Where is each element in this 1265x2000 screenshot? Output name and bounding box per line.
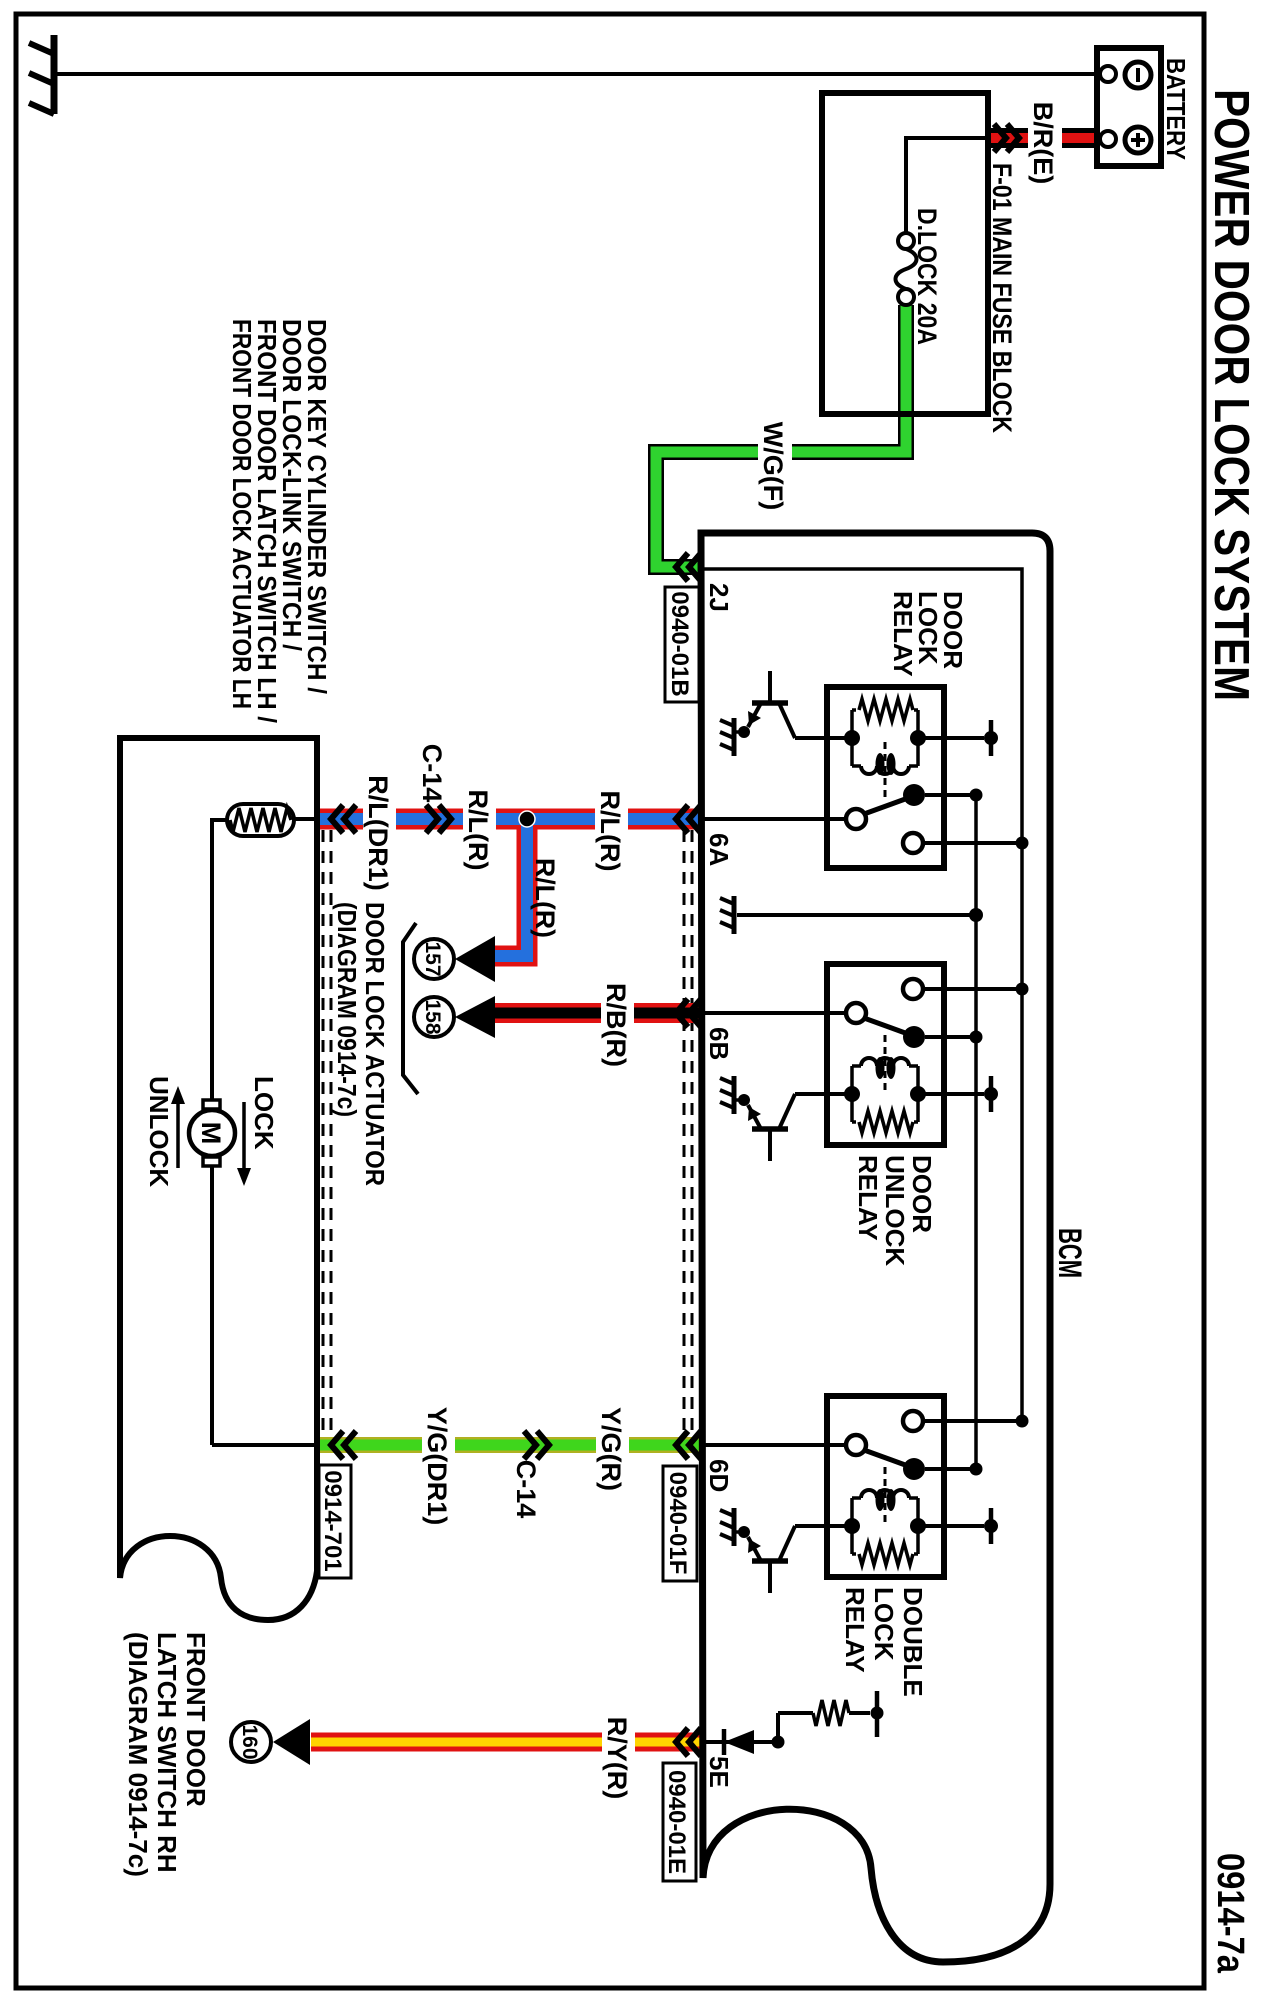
fuse block F-01 <box>822 93 988 414</box>
svg-text:R/L(R): R/L(R) <box>595 791 625 872</box>
arrow to 158 <box>455 996 495 1038</box>
ground door unlock relay transistor <box>720 1076 734 1114</box>
chevron 6A <box>676 805 701 833</box>
svg-text:R/L(R): R/L(R) <box>463 790 493 871</box>
battery negative terminal <box>1125 62 1151 88</box>
junction dot on R/L wire <box>519 811 535 827</box>
wire B/R(E) battery to fuse <box>988 128 1100 148</box>
lock arrow <box>242 1102 246 1168</box>
svg-text:6B: 6B <box>704 1027 734 1060</box>
wire fuse block internal <box>906 138 988 233</box>
double lock relay (mirrored) <box>703 1396 1029 1593</box>
svg-text:0940-01E: 0940-01E <box>663 1770 690 1874</box>
ground double lock relay transistor <box>720 1508 734 1546</box>
svg-text:LOCK: LOCK <box>249 1076 279 1150</box>
svg-text:POWER DOOR LOCK SYSTEM: POWER DOOR LOCK SYSTEM <box>1204 89 1258 701</box>
svg-text:R/L(R): R/L(R) <box>530 858 560 938</box>
wire motor to 6D pin <box>212 1166 317 1445</box>
wire R/L(R) BCM 6A to actuator, with branch to 157 <box>319 819 701 956</box>
arrow to 160 <box>273 1719 310 1765</box>
battery negative wire to ground <box>54 72 1100 76</box>
label Y/G(DR1) <box>422 1402 455 1530</box>
fuse D.LOCK 20A <box>898 233 914 249</box>
svg-text:Y/G(DR1): Y/G(DR1) <box>422 1407 452 1526</box>
chevron battery wire <box>994 124 1019 152</box>
svg-text:DOOR LOCK ACTUATOR: DOOR LOCK ACTUATOR <box>360 902 390 1186</box>
svg-text:0914-7a: 0914-7a <box>1209 1853 1251 1974</box>
svg-text:(DIAGRAM 0914-7c): (DIAGRAM 0914-7c) <box>332 902 362 1117</box>
battery pin negative <box>1100 66 1116 82</box>
svg-text:0914-701: 0914-701 <box>319 1470 346 1571</box>
motor terminal left <box>203 1100 220 1109</box>
svg-text:(DIAGRAM 0914-7c): (DIAGRAM 0914-7c) <box>123 1632 153 1877</box>
svg-text:6D: 6D <box>704 1459 734 1492</box>
svg-text:R/L(DR1): R/L(DR1) <box>363 775 393 891</box>
unlock arrow <box>176 1104 180 1168</box>
svg-text:C-14: C-14 <box>511 1460 541 1519</box>
wire capsule to motor <box>212 820 227 1100</box>
battery <box>1097 48 1161 166</box>
label R/Y(R) <box>602 1704 635 1812</box>
connector dashed lines actuator side <box>323 830 331 1432</box>
chassis ground battery <box>51 35 58 114</box>
chevron C-14 on Y/G <box>524 1431 549 1459</box>
svg-text:5E: 5E <box>704 1756 734 1788</box>
label R/L(R) near BCM <box>595 777 628 885</box>
svg-text:FRONT DOOR: FRONT DOOR <box>181 1632 211 1807</box>
wire R/B(R) BCM 6B to 158 <box>495 1003 701 1023</box>
chevron actuator Y/G <box>331 1431 356 1459</box>
actuator callout labels <box>403 923 418 1094</box>
wire Y/G(R) BCM 6D to actuator <box>319 1437 701 1453</box>
svg-text:158: 158 <box>421 999 444 1034</box>
diode D1 on 5E input <box>724 1730 754 1754</box>
svg-text:FRONT DOOR LOCK ACTUATOR LH: FRONT DOOR LOCK ACTUATOR LH <box>227 319 257 709</box>
battery pin positive <box>1100 131 1116 147</box>
svg-text:DOOR: DOOR <box>907 1155 937 1233</box>
svg-text:BATTERY: BATTERY <box>1161 58 1191 160</box>
wire W/G(F) fuse to BCM 2J <box>656 305 906 567</box>
chevron actuator R/L <box>331 805 356 833</box>
svg-text:0940-01F: 0940-01F <box>664 1472 691 1575</box>
svg-text:160: 160 <box>238 1724 261 1759</box>
resistor R1 5E pull-up <box>813 1700 849 1726</box>
chassis ground mid <box>720 896 734 934</box>
chevron 5E <box>676 1728 701 1756</box>
chevron 6B <box>676 999 701 1027</box>
svg-text:R/Y(R): R/Y(R) <box>602 1717 632 1800</box>
chevron 6D <box>676 1431 701 1459</box>
connector label 0940-01B <box>665 587 699 702</box>
label R/B(R) <box>601 971 634 1079</box>
BCM box with torn edge <box>701 533 1050 1962</box>
svg-text:6A: 6A <box>704 833 734 866</box>
door switch resistor capsule <box>227 804 294 836</box>
svg-text:2J: 2J <box>704 583 734 612</box>
label Y/G(R) <box>596 1395 629 1503</box>
chevron 2J <box>676 553 701 581</box>
wire 5E pin to diode <box>703 1740 754 1744</box>
svg-text:DOUBLE: DOUBLE <box>898 1587 928 1697</box>
svg-text:Y/G(R): Y/G(R) <box>596 1407 626 1491</box>
ground door lock relay transistor <box>720 718 734 756</box>
svg-text:UNLOCK: UNLOCK <box>880 1155 910 1266</box>
svg-text:RELAY: RELAY <box>853 1155 883 1241</box>
internal ground bus <box>974 795 978 1469</box>
svg-text:R/B(R): R/B(R) <box>601 983 631 1067</box>
connector label 0940-01E <box>663 1763 696 1881</box>
battery positive terminal <box>1125 127 1151 153</box>
svg-text:B/R(E): B/R(E) <box>1028 102 1058 185</box>
svg-text:RELAY: RELAY <box>888 591 918 677</box>
svg-text:0940-01B: 0940-01B <box>666 591 693 696</box>
svg-text:W/G(F): W/G(F) <box>758 422 788 510</box>
joint connector 5E <box>871 1707 884 1720</box>
svg-text:C-14: C-14 <box>417 744 447 803</box>
internal power bus from 2J <box>703 569 1022 1421</box>
actuator assembly box with torn edge <box>120 738 317 1620</box>
door lock relay <box>703 671 1029 868</box>
svg-text:LATCH SWITCH RH: LATCH SWITCH RH <box>152 1632 182 1873</box>
connector label 0914-701 <box>319 1465 351 1578</box>
node 5E junction <box>772 1736 785 1749</box>
wire diode to pull-up resistor <box>754 1713 813 1742</box>
svg-text:D.LOCK 20A: D.LOCK 20A <box>912 208 942 345</box>
svg-text:157: 157 <box>421 941 444 976</box>
wire R/Y(R) BCM 5E to 160 <box>311 1733 701 1752</box>
svg-text:RELAY: RELAY <box>840 1587 870 1673</box>
motor M door lock actuator <box>189 1110 235 1156</box>
chevron C-14 on R/L <box>426 805 451 833</box>
label R/L(DR1) <box>363 770 396 896</box>
label R/L(R) below junction <box>463 776 496 884</box>
motor terminal right <box>203 1157 220 1166</box>
wire resistor R1 to joint <box>849 1711 870 1715</box>
svg-text:UNLOCK: UNLOCK <box>144 1076 174 1187</box>
door unlock relay (mirrored) <box>703 964 1029 1161</box>
label W/G(F) <box>758 418 792 514</box>
svg-text:M: M <box>196 1122 226 1145</box>
arrow to 157 <box>455 936 495 982</box>
svg-text:LOCK: LOCK <box>869 1587 899 1661</box>
connector dashed lines BCM side <box>684 830 692 1432</box>
svg-text:F-01 MAIN FUSE BLOCK: F-01 MAIN FUSE BLOCK <box>987 163 1017 433</box>
label B/R(E) <box>1028 102 1062 184</box>
ground drop from bus <box>737 913 976 917</box>
svg-text:BCM: BCM <box>1052 1228 1088 1278</box>
connector label 0940-01F <box>663 1466 697 1581</box>
